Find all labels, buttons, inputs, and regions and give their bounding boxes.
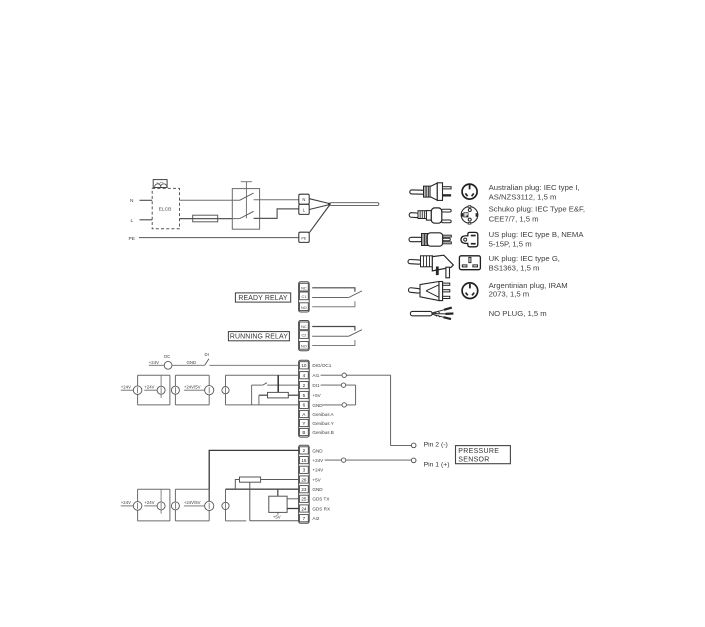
svg-text:2: 2 <box>303 383 306 388</box>
svg-text:+24V: +24V <box>121 385 131 390</box>
svg-text:READY RELAY: READY RELAY <box>238 295 288 302</box>
svg-text:+5V: +5V <box>273 514 281 519</box>
svg-text:PE: PE <box>129 236 135 242</box>
svg-text:L: L <box>131 218 134 224</box>
svg-text:25: 25 <box>301 497 307 502</box>
svg-text:N: N <box>302 197 305 202</box>
svg-text:GND: GND <box>312 403 323 408</box>
svg-text:NO: NO <box>301 345 307 349</box>
svg-text:15: 15 <box>301 458 307 463</box>
svg-text:B: B <box>302 430 305 435</box>
svg-text:Pin 2 (-): Pin 2 (-) <box>424 441 448 448</box>
svg-text:ELCB: ELCB <box>159 207 172 213</box>
svg-text:AI1: AI1 <box>312 373 319 378</box>
svg-text:BS1363, 1,5 m: BS1363, 1,5 m <box>489 263 540 272</box>
svg-text:C1: C1 <box>301 295 306 299</box>
svg-text:Genibus Y: Genibus Y <box>312 421 333 426</box>
svg-text:AS/NZS3112, 1,5 m: AS/NZS3112, 1,5 m <box>489 192 557 201</box>
svg-text:5: 5 <box>303 393 306 398</box>
svg-text:10: 10 <box>301 363 307 368</box>
svg-text:PRESSURE: PRESSURE <box>458 448 499 455</box>
svg-text:+24V: +24V <box>312 468 324 473</box>
svg-text:RUNNING RELAY: RUNNING RELAY <box>230 334 288 341</box>
svg-text:C2: C2 <box>301 334 306 338</box>
svg-text:Genibus B: Genibus B <box>312 430 333 435</box>
svg-text:+5V: +5V <box>312 477 321 482</box>
svg-text:+24V: +24V <box>121 500 131 505</box>
svg-text:2: 2 <box>303 448 306 453</box>
svg-text:+24V: +24V <box>312 458 324 463</box>
svg-text:OC: OC <box>164 354 170 359</box>
svg-text:Genibus A: Genibus A <box>312 412 334 417</box>
svg-text:US plug: IEC type B, NEMA: US plug: IEC type B, NEMA <box>489 230 585 239</box>
svg-text:+24V/5V: +24V/5V <box>184 500 201 505</box>
svg-text:Australian plug: IEC type I,: Australian plug: IEC type I, <box>489 183 580 192</box>
svg-text:+24V: +24V <box>149 360 159 365</box>
svg-text:Y: Y <box>302 421 305 426</box>
svg-text:24: 24 <box>301 506 307 511</box>
svg-text:4: 4 <box>303 373 306 378</box>
svg-text:UK plug: IEC type G,: UK plug: IEC type G, <box>489 254 560 263</box>
svg-text:+24V: +24V <box>144 385 154 390</box>
svg-text:N: N <box>130 198 134 204</box>
svg-text:PE: PE <box>301 236 307 240</box>
svg-text:SENSOR: SENSOR <box>458 457 489 464</box>
svg-text:NO: NO <box>301 306 307 310</box>
svg-text:+24V/5V: +24V/5V <box>184 385 201 390</box>
svg-text:GDS RX: GDS RX <box>312 506 330 511</box>
svg-text:23: 23 <box>301 487 307 492</box>
svg-text:+24V: +24V <box>144 500 154 505</box>
svg-text:2073, 1,5 m: 2073, 1,5 m <box>489 290 530 299</box>
svg-text:Argentinian plug, IRAM: Argentinian plug, IRAM <box>489 281 568 290</box>
svg-text:DI: DI <box>205 352 209 357</box>
svg-text:6: 6 <box>303 403 306 408</box>
svg-text:GDS TX: GDS TX <box>312 497 329 502</box>
svg-text:7: 7 <box>303 516 306 521</box>
svg-text:NO PLUG, 1,5 m: NO PLUG, 1,5 m <box>489 309 547 318</box>
svg-text:Pin 1 (+): Pin 1 (+) <box>424 461 450 468</box>
svg-text:GND: GND <box>312 487 323 492</box>
svg-text:DI1: DI1 <box>312 383 320 388</box>
svg-text:GND: GND <box>312 448 323 453</box>
svg-text:5-15P, 1,5 m: 5-15P, 1,5 m <box>489 239 532 248</box>
svg-text:Schuko plug: IEC Type E&F,: Schuko plug: IEC Type E&F, <box>489 204 585 213</box>
svg-text:AI2: AI2 <box>312 516 319 521</box>
svg-text:NC: NC <box>301 325 307 329</box>
svg-text:+5V: +5V <box>312 393 321 398</box>
svg-text:CEE7/7, 1,5 m: CEE7/7, 1,5 m <box>489 214 539 223</box>
svg-text:26: 26 <box>301 477 307 482</box>
svg-text:DIG/OC1: DIG/OC1 <box>312 363 331 368</box>
svg-text:NC: NC <box>301 286 307 290</box>
svg-text:3: 3 <box>303 468 306 473</box>
svg-text:GND: GND <box>187 360 197 365</box>
